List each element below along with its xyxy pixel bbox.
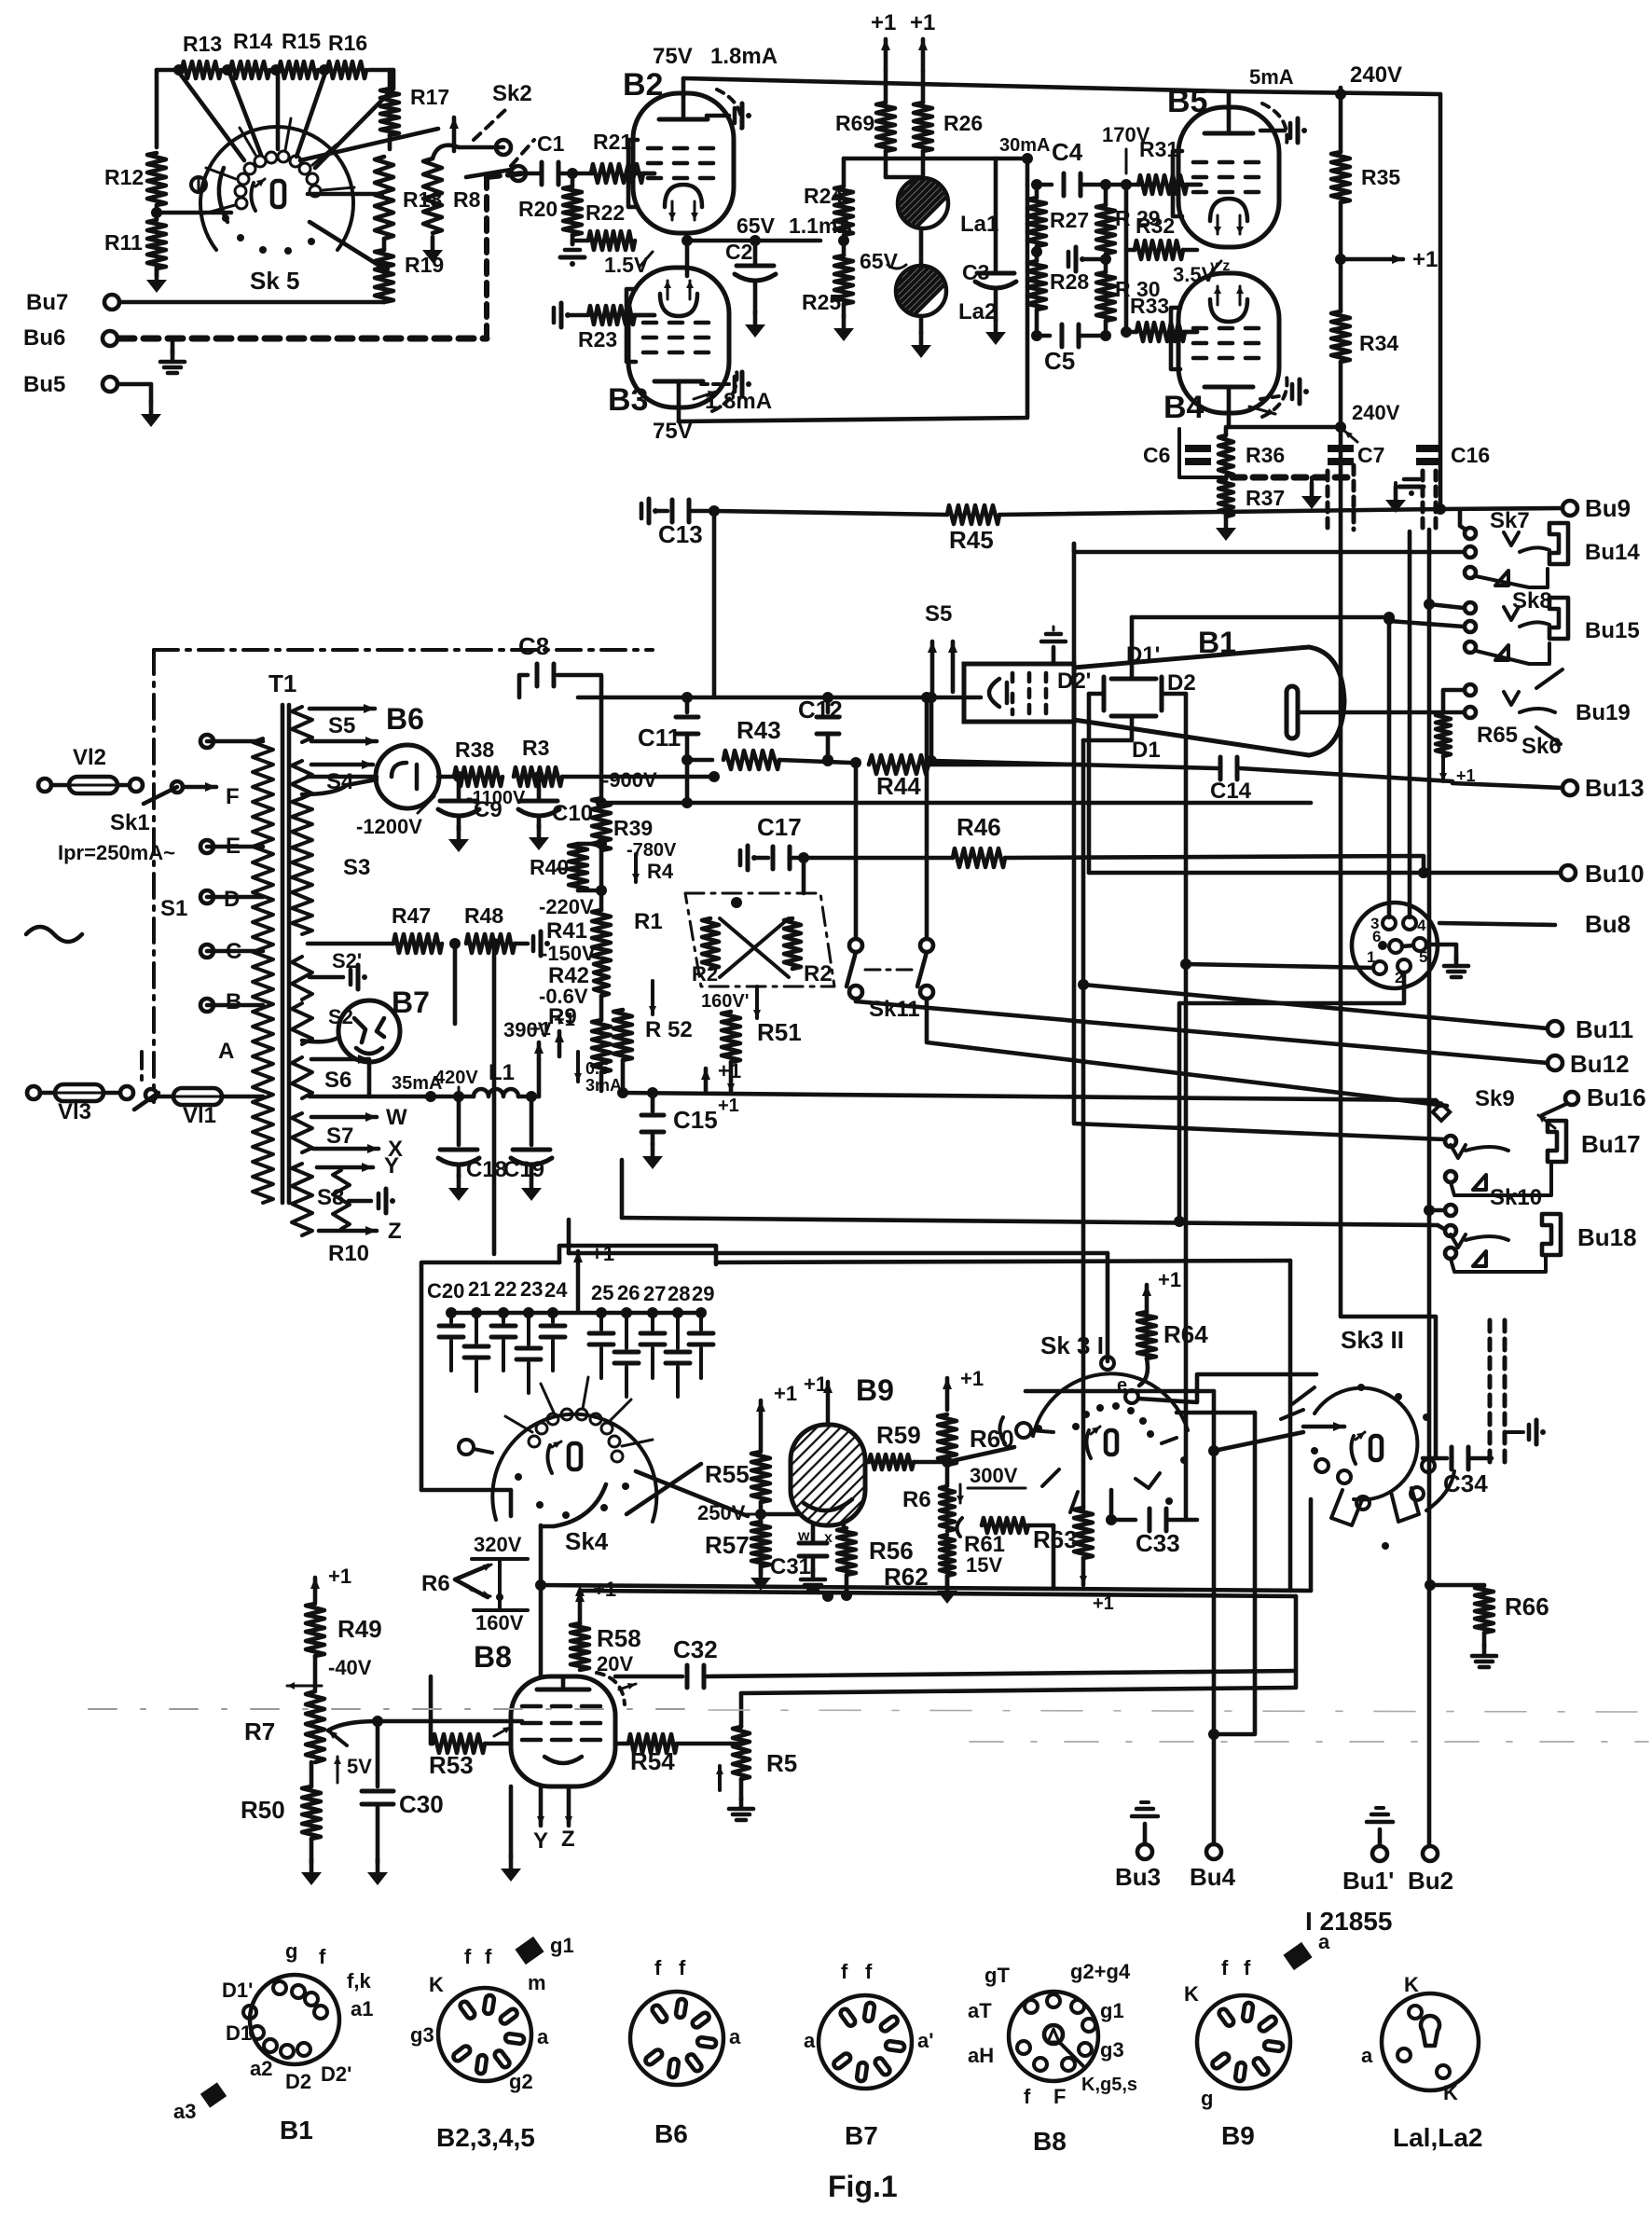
svg-text:B7: B7 [392, 986, 430, 1019]
shield dash horizontal [1232, 475, 1350, 481]
resistor R60 [938, 1414, 957, 1484]
label R22 [585, 200, 625, 225]
svg-text:Y: Y [384, 1153, 399, 1179]
junction [567, 168, 578, 179]
switch Sk11 left [847, 939, 862, 999]
svg-text:R51: R51 [757, 1018, 802, 1046]
S2 to B7 [302, 1037, 339, 1041]
tube B7 [338, 1000, 455, 1096]
resistor R49 [306, 1604, 324, 1689]
label R60 [970, 1425, 1014, 1453]
svg-text:a1: a1 [351, 1997, 373, 2020]
svg-text:B1: B1 [280, 2116, 313, 2144]
svg-text:Bu13: Bu13 [1585, 774, 1645, 802]
label La2 [958, 299, 997, 324]
wire R45 to Bu9 [999, 509, 1440, 515]
B8 cathode [544, 1757, 582, 1763]
tube B3 [628, 268, 737, 411]
label R59 [876, 1421, 921, 1449]
plate D2-prime [1089, 677, 1104, 710]
wire to Sk7 lower [1074, 544, 1464, 552]
socket B9 a square [1283, 1930, 1330, 1970]
terminal Bu7 [26, 290, 384, 315]
B9 cathode to bus [827, 1520, 829, 1596]
label Sk4 [565, 1527, 609, 1555]
fuse Vl1 [158, 1088, 263, 1105]
socket B7 labels [804, 1960, 933, 2052]
terminal Bu4 [1190, 1844, 1236, 1891]
svg-text:320V: 320V [474, 1533, 522, 1556]
svg-text:R32: R32 [1136, 214, 1175, 238]
label 30mA [999, 135, 1050, 156]
svg-text:Bu1': Bu1' [1342, 1867, 1394, 1895]
svg-text:0.6: 0.6 [585, 1059, 609, 1078]
+1 arrow R49 [310, 1565, 351, 1602]
cross X [720, 897, 789, 977]
svg-text:R49: R49 [337, 1615, 382, 1643]
label La socket [1393, 2123, 1482, 2152]
svg-text:E: E [226, 834, 241, 859]
bus y1172 [623, 1093, 1436, 1100]
label B9 [856, 1373, 894, 1407]
vertical Bu2 [1427, 530, 1432, 1846]
svg-text:C7: C7 [1357, 443, 1384, 467]
svg-text:Bu11: Bu11 [1576, 1015, 1633, 1043]
svg-text:R2: R2 [804, 961, 833, 986]
B3 bottom bus [679, 185, 1027, 421]
vertical left of C14 bus [926, 692, 937, 761]
svg-text:a2: a2 [250, 2057, 272, 2080]
label B7 [392, 986, 430, 1019]
Bu8 ground [1426, 945, 1468, 977]
ground arrow near C16 [1385, 483, 1406, 513]
svg-text:B2,3,4,5: B2,3,4,5 [436, 2123, 535, 2152]
svg-text:22: 22 [494, 1277, 516, 1301]
junction R47 R48 [449, 938, 461, 1024]
label 65V small [860, 249, 906, 273]
Sk4 vertical to B8 [535, 1525, 546, 1676]
svg-text:Fig.1: Fig.1 [828, 2170, 898, 2203]
svg-text:+1: +1 [804, 1372, 827, 1396]
R7 wiper wire [328, 1716, 522, 1731]
C6 bracket [1179, 429, 1226, 477]
wire R55-R57 [755, 1502, 804, 1524]
ground under R8 [422, 237, 443, 263]
label C15 [673, 1106, 718, 1134]
Sk3I bottom lead [1109, 1490, 1114, 1520]
terminal Bu3 [1115, 1844, 1161, 1891]
svg-text:R40: R40 [530, 855, 569, 879]
svg-text:-900V: -900V [602, 768, 657, 792]
svg-text:R34: R34 [1359, 331, 1398, 355]
resistor R47 [308, 934, 442, 953]
socket B6 labels [654, 1956, 741, 2048]
B4 plate lead [1227, 413, 1232, 427]
svg-text:D2': D2' [321, 2062, 351, 2086]
socket B6 [630, 1992, 723, 2085]
svg-text:Z: Z [388, 1219, 402, 1244]
capacitor C14 [1210, 757, 1252, 804]
svg-text:C18: C18 [466, 1157, 507, 1182]
65V wire [687, 214, 853, 241]
svg-text:R19: R19 [405, 253, 444, 277]
wire 240V corner [1435, 94, 1446, 515]
Sk11 dashdot [865, 969, 917, 972]
label 240V top [1341, 62, 1402, 94]
svg-text:+1: +1 [328, 1565, 351, 1588]
svg-text:26: 26 [617, 1281, 640, 1304]
chassis cap right of B5 [1260, 118, 1307, 143]
resistor R19 [375, 250, 393, 302]
wire R35-R34 [1339, 202, 1343, 311]
label 250V [697, 1501, 757, 1524]
label C1 [537, 131, 565, 156]
svg-text:C31: C31 [770, 1554, 811, 1579]
svg-text:f,k: f,k [347, 1969, 371, 1993]
wire Bu12 [856, 999, 1630, 1078]
vertical D2p [1087, 694, 1092, 873]
jack Bu18 [1542, 1214, 1637, 1255]
label Vl1 [183, 1103, 216, 1128]
label 1.8mA [710, 44, 778, 69]
enclosure dash-dot top [154, 648, 653, 652]
Bu8 pin1 wire [1180, 958, 1373, 970]
svg-text:65V: 65V [737, 214, 776, 238]
junction C13 [709, 505, 720, 517]
tube B2 [633, 90, 741, 233]
primary winding [253, 738, 273, 1203]
resistor R55 [751, 1452, 770, 1502]
socket B1 [243, 1975, 339, 2064]
label R41 [546, 918, 587, 944]
switch Sk8 contact 1 [1424, 599, 1476, 614]
ground R57 [750, 1565, 771, 1591]
label R23 [578, 327, 617, 352]
label R33 [1130, 294, 1169, 318]
label C31 [770, 1554, 811, 1579]
vertical Sk3I top [1106, 1253, 1110, 1361]
svg-text:K: K [1404, 1973, 1419, 1996]
label R24 [804, 184, 843, 208]
svg-text:C8: C8 [518, 632, 549, 660]
terminal Bu2 [1408, 1846, 1453, 1895]
Bu3 chassis [1132, 1802, 1158, 1844]
label R34 [1359, 331, 1398, 355]
label C34 [1443, 1469, 1488, 1497]
Sk3II lower vertical [1177, 1413, 1255, 1734]
label B5 [1167, 84, 1207, 119]
label B7 socket [845, 2121, 878, 2150]
resistor R2 left [702, 918, 719, 969]
resistor R2 right [784, 918, 801, 969]
vertical D2 [1184, 694, 1189, 1520]
rotary switch Sk5 [191, 118, 354, 255]
B8 grid rows [522, 1706, 600, 1740]
capacitor C8 [519, 664, 601, 697]
label R37 [1246, 486, 1285, 510]
svg-text:-1200V: -1200V [356, 815, 422, 838]
resistor R53 [431, 1734, 511, 1753]
label R29 [1115, 206, 1161, 230]
label Sk10 [1490, 1185, 1542, 1210]
svg-text:R14: R14 [233, 29, 272, 53]
capacitor C6 [1143, 427, 1211, 467]
vertical to Sk11 right [921, 692, 932, 939]
jack hooks Bu19 [1504, 669, 1563, 744]
label R40 [530, 855, 571, 879]
svg-text:R55: R55 [705, 1460, 750, 1488]
B8 Y Z arrows [533, 1786, 575, 1854]
svg-text:24: 24 [544, 1278, 568, 1302]
svg-text:gT: gT [984, 1964, 1010, 1987]
svg-text:R44: R44 [876, 772, 921, 800]
svg-text:R8: R8 [453, 187, 481, 212]
label C17 [757, 813, 802, 841]
wire R43 level [681, 754, 712, 765]
chassis cap above gun [1041, 627, 1066, 664]
svg-text:a': a' [917, 2029, 933, 2052]
svg-text:S1: S1 [160, 896, 187, 921]
svg-text:R22: R22 [585, 200, 625, 225]
svg-text:S3: S3 [343, 855, 370, 880]
ground C30 [367, 1859, 388, 1885]
svg-text:R5: R5 [766, 1749, 797, 1777]
svg-text:25: 25 [591, 1281, 613, 1304]
capacitor C3 [975, 159, 1016, 321]
label C11 [638, 724, 681, 752]
label R66 [1505, 1593, 1549, 1620]
label B2345 socket [436, 2123, 535, 2152]
label R42 [548, 963, 589, 988]
ground under R11 [146, 267, 167, 293]
svg-text:Z: Z [561, 1827, 575, 1852]
label R31 [1139, 137, 1178, 161]
svg-text:+1: +1 [774, 1382, 797, 1405]
arrow below right pot [753, 986, 761, 1018]
label R61 [964, 1532, 1005, 1557]
R6 160V label [474, 1559, 528, 1634]
svg-text:C5: C5 [1044, 347, 1075, 375]
bus above B8 [580, 1591, 1296, 1596]
ground R62 [937, 1578, 957, 1604]
+1 arrow R58 [575, 1578, 616, 1624]
svg-text:aT: aT [968, 1999, 992, 2022]
vert chain R39 [592, 697, 611, 910]
socket B9 labels [1184, 1956, 1251, 2110]
label C32 [673, 1635, 718, 1663]
svg-text:240V: 240V [1352, 401, 1400, 424]
svg-text:Bu16: Bu16 [1587, 1083, 1646, 1111]
svg-text:D1': D1' [222, 1979, 253, 2002]
svg-text:Bu10: Bu10 [1585, 860, 1645, 888]
wire C17 to R46 [804, 856, 953, 861]
svg-text:Bu7: Bu7 [26, 290, 68, 315]
R6 320V label [472, 1533, 528, 1559]
svg-text:Bu15: Bu15 [1585, 618, 1640, 643]
ground under La2 [911, 316, 931, 358]
svg-text:B8: B8 [474, 1640, 512, 1674]
label R7 [244, 1717, 275, 1745]
wire R12-R11 [151, 205, 162, 219]
B5 grid bracket [1173, 151, 1201, 216]
label R32 [1136, 214, 1175, 238]
label R35 [1361, 165, 1400, 189]
label I21855 [1305, 1907, 1392, 1936]
socket La labels [1361, 1973, 1458, 2104]
label R65 [1477, 723, 1518, 748]
Sk8 aux contact [1465, 641, 1549, 664]
label 1.8mA B3 [694, 389, 772, 414]
svg-text:La1: La1 [960, 212, 998, 237]
plate D1-prime [1111, 617, 1156, 679]
svg-text:S8: S8 [317, 1185, 344, 1210]
capacitor C7 [1328, 443, 1384, 467]
svg-text:C19: C19 [503, 1157, 544, 1182]
svg-text:K: K [429, 1973, 444, 1996]
label 20V [597, 1652, 633, 1675]
label R69 [835, 111, 874, 135]
wire R43-R44 [779, 755, 861, 768]
svg-text:f: f [865, 1960, 873, 1983]
shielded wire from Bu6 [119, 173, 522, 338]
Sk10 contacts [1424, 1205, 1508, 1248]
ground arrow near C7 [1301, 477, 1322, 509]
svg-text:Vl1: Vl1 [183, 1103, 216, 1128]
capacitor C9 [438, 771, 479, 830]
label R64 [1163, 1320, 1208, 1348]
vertical x1130 [1052, 1525, 1056, 1589]
lamp La1 [862, 151, 965, 228]
switch Sk2 dashed [474, 110, 534, 166]
capacitor C31 [799, 1543, 827, 1591]
resistor R23 with chassis [554, 303, 654, 327]
svg-text:R45: R45 [949, 526, 994, 554]
svg-text:Bu17: Bu17 [1581, 1130, 1641, 1158]
label 420V [434, 1068, 478, 1096]
chassis cap right of B2 [707, 103, 751, 128]
svg-text:6: 6 [1372, 928, 1381, 945]
label R9 [548, 1004, 577, 1029]
wire Bu11 [1083, 985, 1633, 1043]
wire capbank to Sk3II [716, 1261, 1290, 1591]
svg-text:R66: R66 [1505, 1593, 1549, 1620]
Sk4 box bottom [421, 1490, 511, 1516]
socket B2345 labels [410, 1945, 549, 2093]
svg-text:C4: C4 [1052, 138, 1083, 166]
svg-text:f: f [1244, 1956, 1251, 1979]
svg-text:R7: R7 [244, 1717, 275, 1745]
resistor R18 [375, 157, 393, 250]
resistor R56 [837, 1528, 856, 1596]
ground C19 [521, 1175, 542, 1201]
label C10 [552, 801, 593, 826]
svg-text:29: 29 [692, 1282, 714, 1305]
svg-text:B6: B6 [386, 702, 424, 736]
svg-text:R3: R3 [522, 736, 549, 760]
rotary switch Sk3 II [1281, 1384, 1454, 1550]
arrow 0.6mA [574, 1052, 622, 1095]
svg-text:D: D [224, 887, 240, 912]
chassis cap right shield [1505, 1420, 1546, 1444]
svg-text:R33: R33 [1130, 294, 1169, 318]
+1 arrow B9 [804, 1372, 833, 1425]
svg-text:B: B [226, 989, 241, 1014]
capacitor C12 [817, 692, 839, 765]
resistor R50 [302, 1762, 321, 1863]
svg-text:T1: T1 [268, 669, 296, 697]
label -220V [539, 895, 594, 918]
svg-text:C11: C11 [638, 724, 681, 752]
Bu19 contact 2 [1465, 707, 1476, 718]
label La1 [960, 212, 998, 237]
wire R44 right [929, 763, 1083, 767]
label Sk8 [1512, 588, 1552, 614]
label S5 arrows [925, 601, 957, 695]
resistor R20 [563, 173, 582, 244]
svg-text:23: 23 [520, 1277, 543, 1301]
svg-text:R10: R10 [328, 1241, 369, 1266]
+1 down arrow R65 [1439, 756, 1476, 785]
resistor R64 [1137, 1312, 1156, 1386]
plate D2 [1162, 677, 1186, 710]
svg-text:C33: C33 [1136, 1529, 1180, 1557]
svg-text:-220V: -220V [539, 895, 594, 918]
label C12 [798, 696, 843, 724]
R5 top wire [741, 1688, 1294, 1693]
svg-text:Bu6: Bu6 [23, 325, 65, 351]
resistor R45 [947, 505, 999, 524]
svg-text:+1: +1 [718, 1059, 741, 1083]
resistor R63 [1074, 1508, 1093, 1558]
labels W X [386, 1105, 407, 1162]
svg-text:Sk 5: Sk 5 [250, 267, 300, 295]
S8 arrows [317, 1153, 402, 1244]
Sk3II diag [1240, 1402, 1292, 1455]
main bus to CRT gun [578, 696, 981, 700]
terminal Bu5 [23, 372, 151, 403]
label C19 [503, 1157, 544, 1182]
label 1.5V [604, 252, 653, 277]
label R13 [183, 32, 222, 56]
winding S7 [292, 1112, 379, 1153]
socket B7 [819, 1995, 912, 2089]
label R8 [453, 187, 481, 212]
svg-text:+1: +1 [554, 1010, 575, 1030]
svg-text:S2': S2' [332, 949, 362, 972]
svg-text:C6: C6 [1143, 443, 1170, 467]
label C33 [1136, 1529, 1180, 1557]
svg-text:a: a [537, 2025, 549, 2048]
Sk5 fan wires [177, 70, 438, 269]
svg-text:R4: R4 [647, 860, 674, 883]
Bu9 drop to Sk7 [1460, 509, 1466, 530]
lamp La2 [860, 228, 963, 316]
svg-text:C16: C16 [1451, 443, 1490, 467]
svg-text:F: F [226, 784, 240, 809]
Sk9 aux contact [1445, 1162, 1551, 1195]
svg-text:C3: C3 [962, 260, 989, 284]
vertical x1152 long [1074, 544, 1444, 1139]
svg-text:160V': 160V' [701, 991, 749, 1012]
label R62 [884, 1563, 929, 1591]
ground C18 [448, 1175, 469, 1201]
label Sk9 [1475, 1086, 1515, 1111]
label B9 socket [1221, 2121, 1255, 2150]
svg-text:4: 4 [1417, 917, 1426, 934]
svg-text:a: a [804, 2029, 816, 2052]
wire Bu8 [1439, 923, 1555, 925]
capacitor C1 [522, 162, 593, 185]
